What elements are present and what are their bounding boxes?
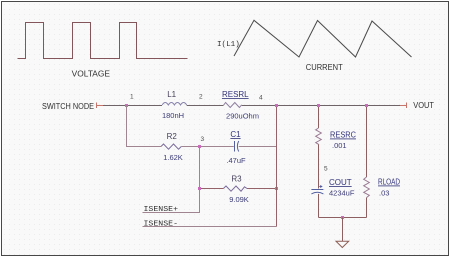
svg-text:4234uF: 4234uF xyxy=(329,189,355,198)
svg-text:VOUT: VOUT xyxy=(413,101,434,110)
svg-text:1.62K: 1.62K xyxy=(163,153,183,162)
svg-text:2: 2 xyxy=(199,94,203,101)
wire node1 vertical xyxy=(127,106,162,147)
wire C1 net vertical xyxy=(276,106,278,227)
wire R2 to C1 xyxy=(181,146,234,148)
svg-text:R3: R3 xyxy=(231,175,242,184)
svg-text:RESRC: RESRC xyxy=(330,131,356,140)
wire R3 row left xyxy=(200,188,224,190)
svg-text:RLOAD: RLOAD xyxy=(378,178,400,187)
pin SWITCH NODE xyxy=(97,103,104,109)
wire bottom rail xyxy=(319,217,367,219)
svg-text:SWITCH NODE: SWITCH NODE xyxy=(42,102,94,111)
wire R3 row right xyxy=(247,188,277,190)
voltage square wave xyxy=(18,23,188,59)
wire RESRL to VOUT xyxy=(242,105,400,107)
junction R3 left xyxy=(198,187,201,190)
wire COUT to bottom xyxy=(318,194,320,218)
wire between L1 and RESRL xyxy=(187,105,224,107)
junction ground tap xyxy=(341,216,344,219)
resistor R2 xyxy=(161,144,181,149)
svg-text:290uOhm: 290uOhm xyxy=(226,112,259,121)
inductor L1 xyxy=(162,103,187,106)
wire RESRC to COUT xyxy=(318,144,320,188)
svg-text:180nH: 180nH xyxy=(162,111,184,120)
wire C1 to right vertical xyxy=(239,146,277,148)
wire RLOAD to bottom xyxy=(366,198,368,218)
current triangle wave xyxy=(234,20,412,57)
svg-text:R2: R2 xyxy=(167,132,178,141)
svg-text:COUT: COUT xyxy=(329,178,352,187)
resistor RLOAD xyxy=(364,177,370,198)
capacitor C1 xyxy=(235,141,239,152)
svg-text:CURRENT: CURRENT xyxy=(306,63,343,72)
svg-text:.03: .03 xyxy=(379,189,389,198)
wire main horizontal net xyxy=(103,105,162,107)
ground symbol xyxy=(336,241,349,247)
junction main line at C1 net xyxy=(275,104,278,107)
wire RLOAD branch top xyxy=(366,106,368,178)
svg-text:9.09K: 9.09K xyxy=(229,195,249,204)
pin VOUT xyxy=(400,103,407,109)
svg-text:.001: .001 xyxy=(332,141,347,150)
svg-text:4: 4 xyxy=(259,95,263,102)
junction main at RLOAD xyxy=(365,104,368,107)
svg-text:I(L1): I(L1) xyxy=(217,41,240,49)
resistor RESRC xyxy=(316,128,322,144)
resistor R3 xyxy=(223,186,247,191)
wire ISENSE- xyxy=(143,226,277,228)
svg-text:ISENSE-: ISENSE- xyxy=(144,221,179,229)
junction R3 right xyxy=(275,187,278,190)
svg-text:VOLTAGE: VOLTAGE xyxy=(72,70,110,79)
svg-text:3: 3 xyxy=(201,136,205,143)
wire ground stub xyxy=(342,218,344,242)
svg-text:.47uF: .47uF xyxy=(226,156,246,165)
svg-text:5: 5 xyxy=(324,166,328,173)
svg-text:RESRL: RESRL xyxy=(222,90,249,99)
wire ISENSE+ xyxy=(143,147,200,213)
svg-text:C1: C1 xyxy=(230,130,241,139)
junction node 1 xyxy=(125,104,128,107)
junction node 3 xyxy=(198,145,201,148)
capacitor COUT xyxy=(311,185,323,194)
svg-text:L1: L1 xyxy=(167,90,176,99)
wire RESRC branch top xyxy=(318,106,320,129)
resistor RESRL xyxy=(223,103,241,108)
wire node3 vertical xyxy=(199,147,201,213)
junction main at RESRC xyxy=(317,104,320,107)
svg-text:1: 1 xyxy=(130,94,134,101)
